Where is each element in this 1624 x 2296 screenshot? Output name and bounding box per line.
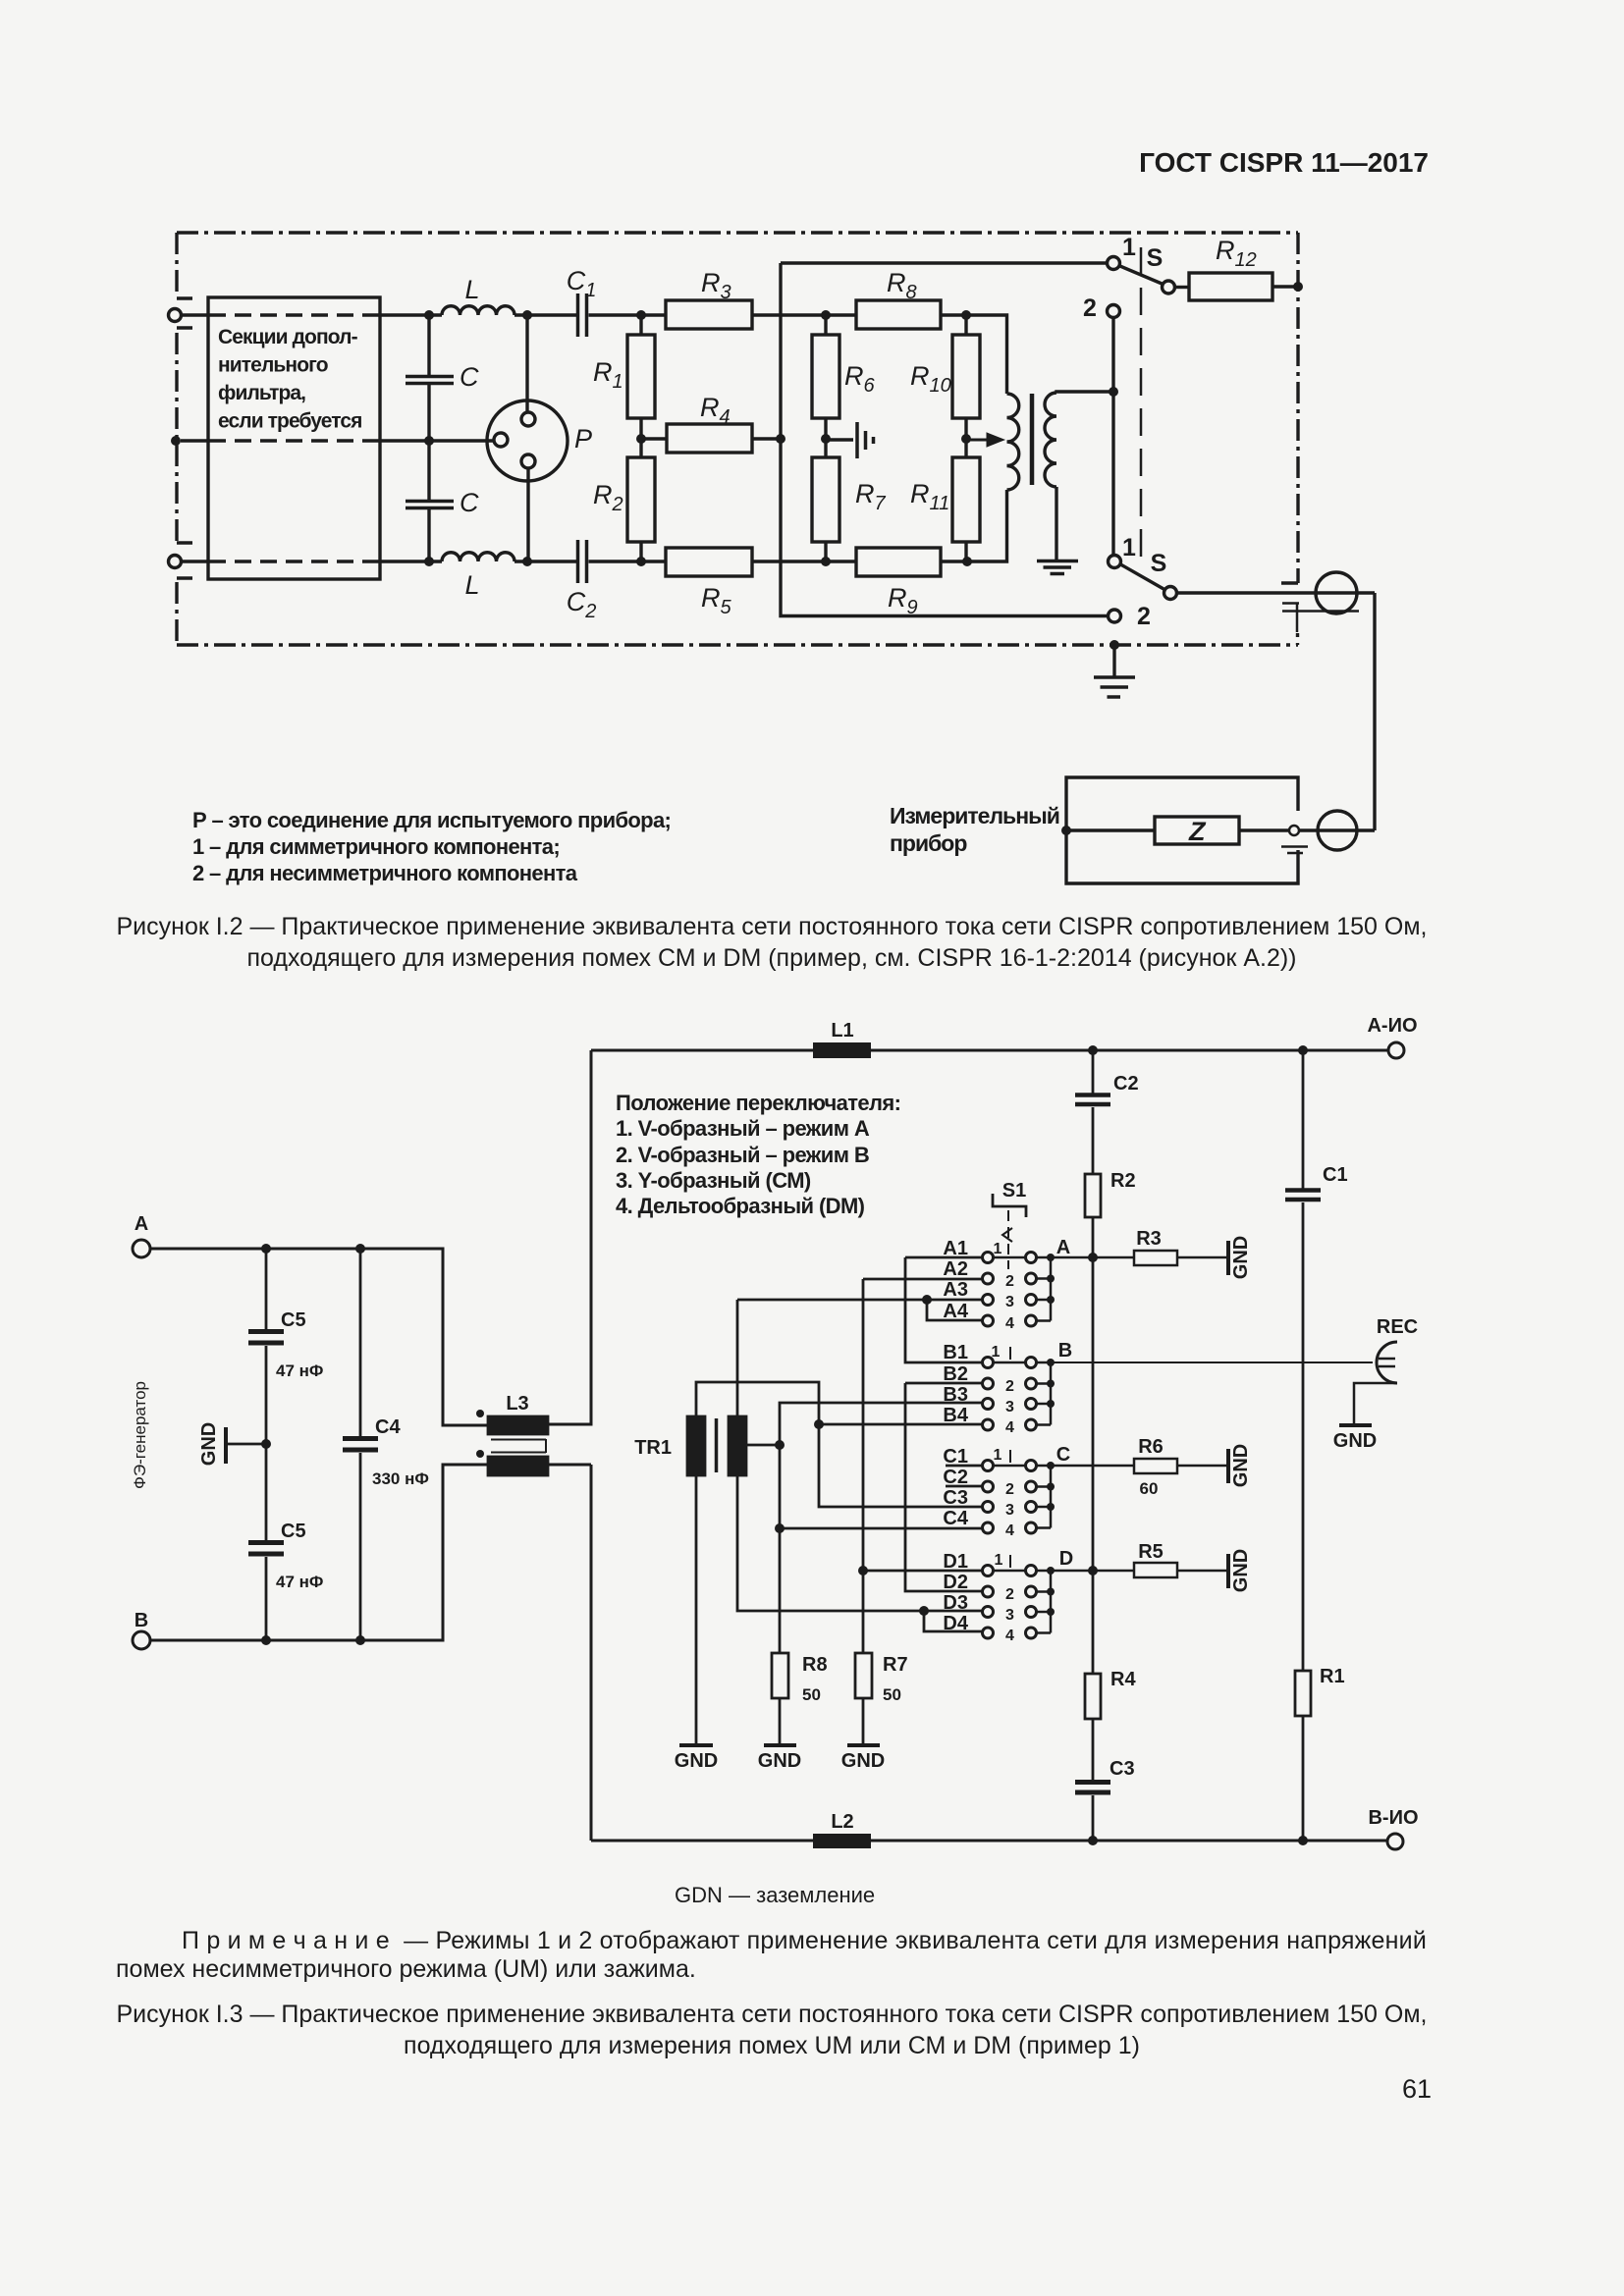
svg-text:C5: C5 bbox=[281, 1309, 306, 1331]
svg-text:R12: R12 bbox=[1216, 236, 1257, 271]
enclosure border right (dash-dot) bbox=[1296, 233, 1299, 583]
svg-text:C2: C2 bbox=[1113, 1073, 1139, 1095]
svg-text:60: 60 bbox=[1140, 1479, 1159, 1498]
svg-text:D: D bbox=[1059, 1548, 1073, 1570]
switch S1 dashed linkage bbox=[1007, 1210, 1009, 1269]
svg-text:1: 1 bbox=[1122, 534, 1136, 561]
wire instrument bbox=[1066, 828, 1289, 831]
svg-text:ФЭ-генератор: ФЭ-генератор bbox=[131, 1381, 149, 1489]
svg-text:D2: D2 bbox=[943, 1572, 968, 1593]
svg-text:R1: R1 bbox=[1320, 1666, 1345, 1687]
svg-text:2: 2 bbox=[1005, 1481, 1014, 1498]
svg-text:Измерительныйприбор: Измерительныйприбор bbox=[890, 803, 1059, 856]
svg-text:R3: R3 bbox=[1136, 1228, 1162, 1250]
svg-text:A4: A4 bbox=[943, 1301, 968, 1322]
enclosure border left (dash-dot) bbox=[175, 233, 178, 297]
wire left bus lower bbox=[548, 1465, 591, 1841]
svg-text:GND: GND bbox=[1333, 1430, 1377, 1452]
svg-text:TR1: TR1 bbox=[634, 1437, 672, 1459]
svg-text:C2: C2 bbox=[567, 587, 597, 622]
terminal B-IO bbox=[1387, 1834, 1403, 1849]
switch linkage dashed line bbox=[1140, 247, 1143, 569]
switch S1 arrow bbox=[1002, 1228, 1012, 1242]
instrument terminal small circle bbox=[1289, 826, 1299, 835]
capacitor C4 bbox=[359, 1249, 362, 1438]
svg-text:3: 3 bbox=[1005, 1399, 1014, 1415]
svg-text:C1: C1 bbox=[943, 1446, 968, 1468]
svg-text:C: C bbox=[1056, 1444, 1070, 1466]
coax lower shield marks bbox=[1281, 847, 1308, 854]
wire tap to C4 row and R8 bbox=[779, 1445, 782, 1653]
terminal input 1 bbox=[169, 309, 182, 322]
svg-text:L: L bbox=[464, 275, 479, 304]
ground GND R7 bbox=[847, 1743, 880, 1747]
svg-text:A2: A2 bbox=[943, 1258, 968, 1280]
inductor L upper bbox=[442, 306, 514, 315]
enclosure border bottom (dash-dot) bbox=[177, 643, 1298, 646]
resistor R4 bbox=[641, 437, 667, 440]
resistor R11 bbox=[964, 418, 967, 457]
wire B2 row to D2 bbox=[905, 1383, 983, 1591]
svg-text:2: 2 bbox=[1005, 1273, 1014, 1290]
svg-text:L1: L1 bbox=[831, 1020, 853, 1041]
svg-text:D4: D4 bbox=[943, 1613, 968, 1634]
GDN legend bbox=[675, 1883, 875, 1908]
resistor R7 bbox=[855, 1653, 872, 1698]
svg-text:A3: A3 bbox=[943, 1279, 968, 1301]
svg-text:L: L bbox=[464, 570, 479, 600]
wire C2 stub bbox=[946, 1485, 983, 1488]
capacitor C1 bbox=[578, 294, 587, 337]
header ГОСТ CISPR 11-2017 bbox=[1139, 147, 1429, 179]
ground GND R3 bbox=[1226, 1241, 1230, 1275]
svg-text:D1: D1 bbox=[943, 1551, 968, 1573]
svg-text:330 нФ: 330 нФ bbox=[372, 1469, 429, 1488]
svg-text:GND: GND bbox=[1230, 1236, 1252, 1279]
wire TR1 left top to B4/C3 bbox=[696, 1382, 983, 1507]
svg-text:R6: R6 bbox=[844, 361, 876, 397]
svg-text:L3: L3 bbox=[506, 1393, 528, 1415]
ground GND REC bbox=[1339, 1423, 1372, 1427]
wire D3-D4 link bbox=[924, 1611, 983, 1631]
resistor R5 bbox=[1134, 1563, 1177, 1577]
inductor L lower bbox=[442, 553, 514, 561]
inductor L2 bbox=[813, 1834, 871, 1848]
capacitor C2 bbox=[578, 540, 587, 583]
svg-text:В-ИО: В-ИО bbox=[1368, 1807, 1418, 1829]
resistor R2 bbox=[639, 418, 642, 457]
svg-text:REC: REC bbox=[1377, 1316, 1418, 1338]
dashed rail segments inside box bbox=[209, 315, 380, 561]
wire to coax bbox=[1177, 593, 1376, 830]
svg-text:50: 50 bbox=[802, 1685, 821, 1704]
svg-text:1: 1 bbox=[994, 1447, 1002, 1464]
wire TR1 left bottom to GND bbox=[695, 1475, 698, 1743]
wire REC to GND bbox=[1354, 1383, 1397, 1423]
page number bbox=[1402, 2074, 1432, 2105]
transformer T secondary coil bbox=[1045, 393, 1056, 487]
legend P/1/2 bbox=[192, 807, 671, 886]
wire upper rail bbox=[182, 313, 667, 316]
switch S lower moving contact bbox=[1164, 587, 1177, 600]
wire lower rail bbox=[182, 490, 1007, 561]
svg-text:R5: R5 bbox=[1138, 1541, 1164, 1563]
resistor R10 bbox=[964, 315, 967, 335]
ground secondary bbox=[1037, 561, 1078, 574]
transformer core bbox=[1030, 394, 1035, 485]
svg-text:GND: GND bbox=[1230, 1549, 1252, 1592]
inductor L1 bbox=[813, 1042, 871, 1058]
transformer TR1 core bbox=[715, 1418, 719, 1472]
wire A3-A4 link bbox=[927, 1300, 983, 1320]
svg-text:C: C bbox=[460, 488, 479, 517]
svg-text:4: 4 bbox=[1005, 1522, 1014, 1539]
svg-text:Секции допол-нительногофильтра: Секции допол-нительногофильтра,если треб… bbox=[218, 326, 362, 433]
bank D contacts bbox=[988, 1571, 1051, 1633]
caption figure I.3 line1 bbox=[117, 2001, 1428, 2029]
resistor R12 bbox=[1175, 286, 1190, 289]
resistor R7 bbox=[824, 418, 827, 457]
capacitor column C upper bbox=[406, 315, 454, 561]
svg-text:C1: C1 bbox=[567, 266, 597, 301]
svg-text:R3: R3 bbox=[701, 268, 731, 303]
svg-text:A1: A1 bbox=[943, 1238, 968, 1259]
resistor R8 bbox=[856, 300, 941, 329]
caption figure I.2 line2 bbox=[246, 944, 1296, 973]
junction dots figure I.3 bbox=[1088, 1045, 1098, 1055]
svg-text:B4: B4 bbox=[943, 1405, 968, 1426]
resistor R3 bbox=[666, 300, 752, 329]
vertical chain C1 R1 bbox=[1302, 1050, 1305, 1190]
transformer T primary coil bbox=[1007, 394, 1019, 490]
capacitor C5 upper bbox=[265, 1249, 268, 1331]
svg-text:R1: R1 bbox=[593, 357, 623, 393]
wire A1 row to B1 bbox=[905, 1257, 983, 1362]
svg-text:2: 2 bbox=[1005, 1378, 1014, 1395]
svg-text:GND: GND bbox=[1230, 1444, 1252, 1487]
svg-text:47 нФ: 47 нФ bbox=[276, 1362, 323, 1380]
impedance Z box bbox=[1155, 817, 1239, 844]
ground GND left bbox=[228, 1443, 266, 1446]
svg-text:D3: D3 bbox=[943, 1592, 968, 1614]
svg-text:R2: R2 bbox=[1110, 1170, 1136, 1192]
svg-text:R8: R8 bbox=[802, 1654, 828, 1676]
svg-text:C2: C2 bbox=[943, 1467, 968, 1488]
svg-text:50: 50 bbox=[883, 1685, 901, 1704]
svg-text:А: А bbox=[135, 1213, 148, 1235]
svg-text:R11: R11 bbox=[910, 479, 949, 514]
wire P pins bbox=[527, 315, 528, 561]
resistor R6 bbox=[1134, 1459, 1177, 1473]
svg-text:4: 4 bbox=[1005, 1628, 1014, 1644]
wire A3 row bbox=[737, 1299, 983, 1302]
switch S upper moving contact bbox=[1163, 281, 1175, 294]
svg-text:S: S bbox=[1147, 244, 1164, 272]
svg-text:2: 2 bbox=[1005, 1586, 1014, 1603]
svg-text:L2: L2 bbox=[831, 1811, 853, 1833]
svg-text:1: 1 bbox=[995, 1552, 1003, 1569]
wire A2 row to D1 and R7 bbox=[863, 1279, 983, 1653]
coax connector lower bbox=[1318, 811, 1357, 850]
wire input A bbox=[150, 1249, 488, 1425]
terminal A bbox=[133, 1240, 150, 1257]
border terminal stubs bbox=[177, 298, 192, 578]
svg-text:GND: GND bbox=[198, 1422, 220, 1466]
wire C1 stub bbox=[946, 1465, 983, 1468]
wire C4 row bbox=[780, 1527, 983, 1530]
svg-text:C4: C4 bbox=[375, 1416, 401, 1438]
svg-text:R6: R6 bbox=[1138, 1436, 1164, 1458]
connector P bbox=[487, 400, 568, 481]
wire left bus upper bbox=[548, 1050, 591, 1424]
svg-text:1: 1 bbox=[992, 1344, 1001, 1361]
svg-text:S: S bbox=[1151, 550, 1167, 577]
svg-text:GND: GND bbox=[841, 1750, 885, 1772]
wire secondary bottom bbox=[1055, 487, 1057, 560]
bank D linkage dash bbox=[1009, 1555, 1011, 1568]
receiver REC symbol bbox=[1377, 1342, 1397, 1383]
svg-text:GND: GND bbox=[758, 1750, 801, 1772]
resistor R9 bbox=[856, 548, 941, 576]
ground GND R5 bbox=[1226, 1554, 1230, 1588]
svg-text:2: 2 bbox=[1083, 294, 1097, 322]
choke L3 windings bbox=[488, 1416, 548, 1434]
ground GND R6 bbox=[1226, 1449, 1230, 1483]
note line2 bbox=[116, 1955, 696, 1984]
svg-text:2: 2 bbox=[1137, 603, 1151, 630]
enclosure border top (dash-dot) bbox=[177, 231, 1298, 234]
bank C contacts bbox=[988, 1466, 1051, 1528]
svg-text:R5: R5 bbox=[701, 583, 732, 618]
svg-text:1: 1 bbox=[1122, 234, 1136, 261]
vertical chain C2 R2 R4 C3 bbox=[1092, 1050, 1095, 1095]
svg-text:B2: B2 bbox=[943, 1363, 968, 1385]
svg-text:B1: B1 bbox=[943, 1342, 968, 1363]
svg-text:R4: R4 bbox=[1110, 1669, 1136, 1690]
svg-text:C5: C5 bbox=[281, 1521, 306, 1542]
svg-text:А-ИО: А-ИО bbox=[1367, 1015, 1417, 1037]
bank A contacts bbox=[988, 1257, 1051, 1321]
wire D1 row bbox=[863, 1570, 983, 1573]
switch S upper arm bbox=[1119, 266, 1164, 285]
resistor R1 bbox=[639, 315, 642, 335]
bank D output to R5 bbox=[1051, 1570, 1134, 1573]
wire upper rail right bbox=[752, 315, 1007, 394]
terminal 2 upper bbox=[1108, 305, 1120, 318]
svg-text:C3: C3 bbox=[943, 1487, 968, 1509]
bank B contacts bbox=[988, 1362, 1051, 1425]
ground mid (rotated) bbox=[826, 438, 853, 441]
bank C output to R6 bbox=[1051, 1465, 1134, 1468]
bank C linkage dash bbox=[1009, 1450, 1011, 1463]
svg-text:47 нФ: 47 нФ bbox=[276, 1573, 323, 1591]
wire B4 row bbox=[819, 1423, 983, 1426]
tap arrow head bbox=[966, 435, 1001, 446]
svg-text:R7: R7 bbox=[883, 1654, 908, 1676]
wire tap to B3 row bbox=[780, 1403, 983, 1445]
transformer TR1 windings bbox=[687, 1416, 705, 1475]
svg-text:C4: C4 bbox=[943, 1508, 968, 1529]
svg-text:R9: R9 bbox=[888, 583, 918, 618]
switch S lower arm bbox=[1120, 564, 1165, 590]
svg-text:B3: B3 bbox=[943, 1384, 968, 1406]
ground enclosure bbox=[1112, 645, 1115, 677]
wire terminal2 to secondary bbox=[1111, 318, 1114, 556]
svg-text:4: 4 bbox=[1005, 1419, 1014, 1436]
resistor R8 bbox=[772, 1653, 788, 1698]
svg-text:3: 3 bbox=[1005, 1294, 1014, 1310]
svg-text:R10: R10 bbox=[910, 361, 951, 397]
svg-text:3: 3 bbox=[1005, 1502, 1014, 1519]
choke L3 phase dots bbox=[476, 1410, 484, 1417]
wire TR1 right bottom to D3 bbox=[737, 1475, 983, 1611]
svg-text:C3: C3 bbox=[1110, 1758, 1135, 1780]
wire middle rail bbox=[181, 439, 494, 442]
svg-text:GND: GND bbox=[675, 1750, 718, 1772]
svg-text:A: A bbox=[1056, 1237, 1070, 1258]
wire bottom rail B-IO bbox=[591, 1840, 1387, 1842]
switch S1 symbol bbox=[993, 1194, 1026, 1217]
switch position legend bbox=[616, 1091, 900, 1219]
wire into coax lower bbox=[1299, 828, 1375, 831]
caption figure I.3 line2 bbox=[404, 2032, 1140, 2060]
choke L3 core bbox=[491, 1439, 546, 1453]
bank B output to REC bbox=[1051, 1362, 1373, 1363]
caption figure I.2 line1 bbox=[117, 913, 1428, 941]
filter section box bbox=[208, 297, 380, 579]
terminal input 2 bbox=[169, 556, 182, 568]
terminal 2 lower bbox=[1109, 610, 1121, 622]
ground GND R8 bbox=[764, 1743, 796, 1747]
capacitor C5 lower bbox=[265, 1444, 268, 1542]
bank A output to R3 bbox=[1051, 1256, 1134, 1259]
wire secondary top bbox=[1056, 392, 1113, 393]
wire TR1 right top to A3 bbox=[736, 1300, 739, 1416]
bank B linkage dash bbox=[1009, 1347, 1011, 1360]
svg-text:1: 1 bbox=[994, 1241, 1002, 1257]
svg-text:R2: R2 bbox=[593, 480, 623, 515]
resistor R3 bbox=[1134, 1251, 1177, 1265]
coax shield bracket bbox=[1282, 603, 1359, 632]
svg-text:3: 3 bbox=[1005, 1607, 1014, 1624]
measuring instrument box bbox=[1066, 777, 1298, 883]
svg-text:В: В bbox=[135, 1610, 148, 1631]
coax connector upper bbox=[1316, 572, 1357, 614]
switch S upper fixed contact 1 bbox=[1108, 257, 1120, 270]
svg-text:Z: Z bbox=[1188, 817, 1207, 846]
svg-text:C1: C1 bbox=[1323, 1164, 1348, 1186]
svg-text:S1: S1 bbox=[1002, 1180, 1026, 1201]
svg-text:R8: R8 bbox=[887, 268, 917, 303]
svg-text:C: C bbox=[460, 362, 479, 392]
note line1 bbox=[182, 1927, 1427, 1955]
wire vertical feed bbox=[781, 263, 1108, 616]
ground GND TR1 bbox=[679, 1743, 713, 1747]
terminal A-IO bbox=[1388, 1042, 1404, 1058]
svg-text:B: B bbox=[1058, 1340, 1072, 1362]
svg-text:R7: R7 bbox=[855, 479, 887, 514]
resistor R6 bbox=[824, 315, 827, 335]
switch S lower fixed contact 1 bbox=[1109, 556, 1121, 568]
svg-text:P: P bbox=[574, 424, 592, 454]
wire top feed bbox=[781, 261, 1108, 264]
svg-text:4: 4 bbox=[1005, 1315, 1014, 1332]
junction dots figure I.2 bbox=[424, 310, 434, 320]
resistor R5 bbox=[666, 548, 752, 576]
wire top rail A-IO bbox=[591, 1049, 1388, 1052]
wire input B bbox=[150, 1465, 488, 1640]
wire TR1 centre tap bbox=[746, 1444, 780, 1447]
terminal B bbox=[133, 1631, 150, 1649]
